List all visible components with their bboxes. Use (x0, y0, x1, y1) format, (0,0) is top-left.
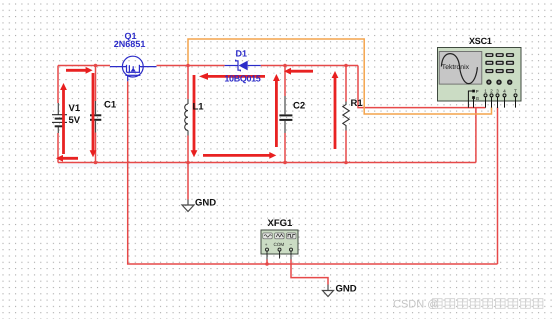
svg-text:D1: D1 (236, 49, 248, 59)
svg-text:V1: V1 (69, 103, 81, 114)
svg-text:XFG1: XFG1 (268, 218, 294, 229)
svg-text:+: + (265, 242, 268, 247)
svg-text:P: P (476, 89, 479, 94)
svg-text:GND: GND (336, 284, 357, 295)
svg-text:XSC1: XSC1 (469, 36, 492, 46)
svg-text:R1: R1 (351, 98, 364, 109)
svg-text:5V: 5V (69, 115, 81, 126)
svg-text:10BQ015: 10BQ015 (224, 74, 260, 84)
svg-text:−: − (290, 242, 293, 247)
svg-text:C2: C2 (293, 101, 305, 112)
svg-text:T: T (514, 88, 517, 93)
svg-text:CSDN @: CSDN @ (393, 299, 438, 311)
svg-text:2N6851: 2N6851 (114, 39, 146, 49)
svg-text:C1: C1 (104, 100, 117, 111)
svg-text:COM: COM (274, 242, 285, 247)
svg-text:Tektronix: Tektronix (442, 64, 470, 71)
svg-text:GND: GND (195, 198, 216, 209)
svg-text:L1: L1 (193, 102, 205, 113)
